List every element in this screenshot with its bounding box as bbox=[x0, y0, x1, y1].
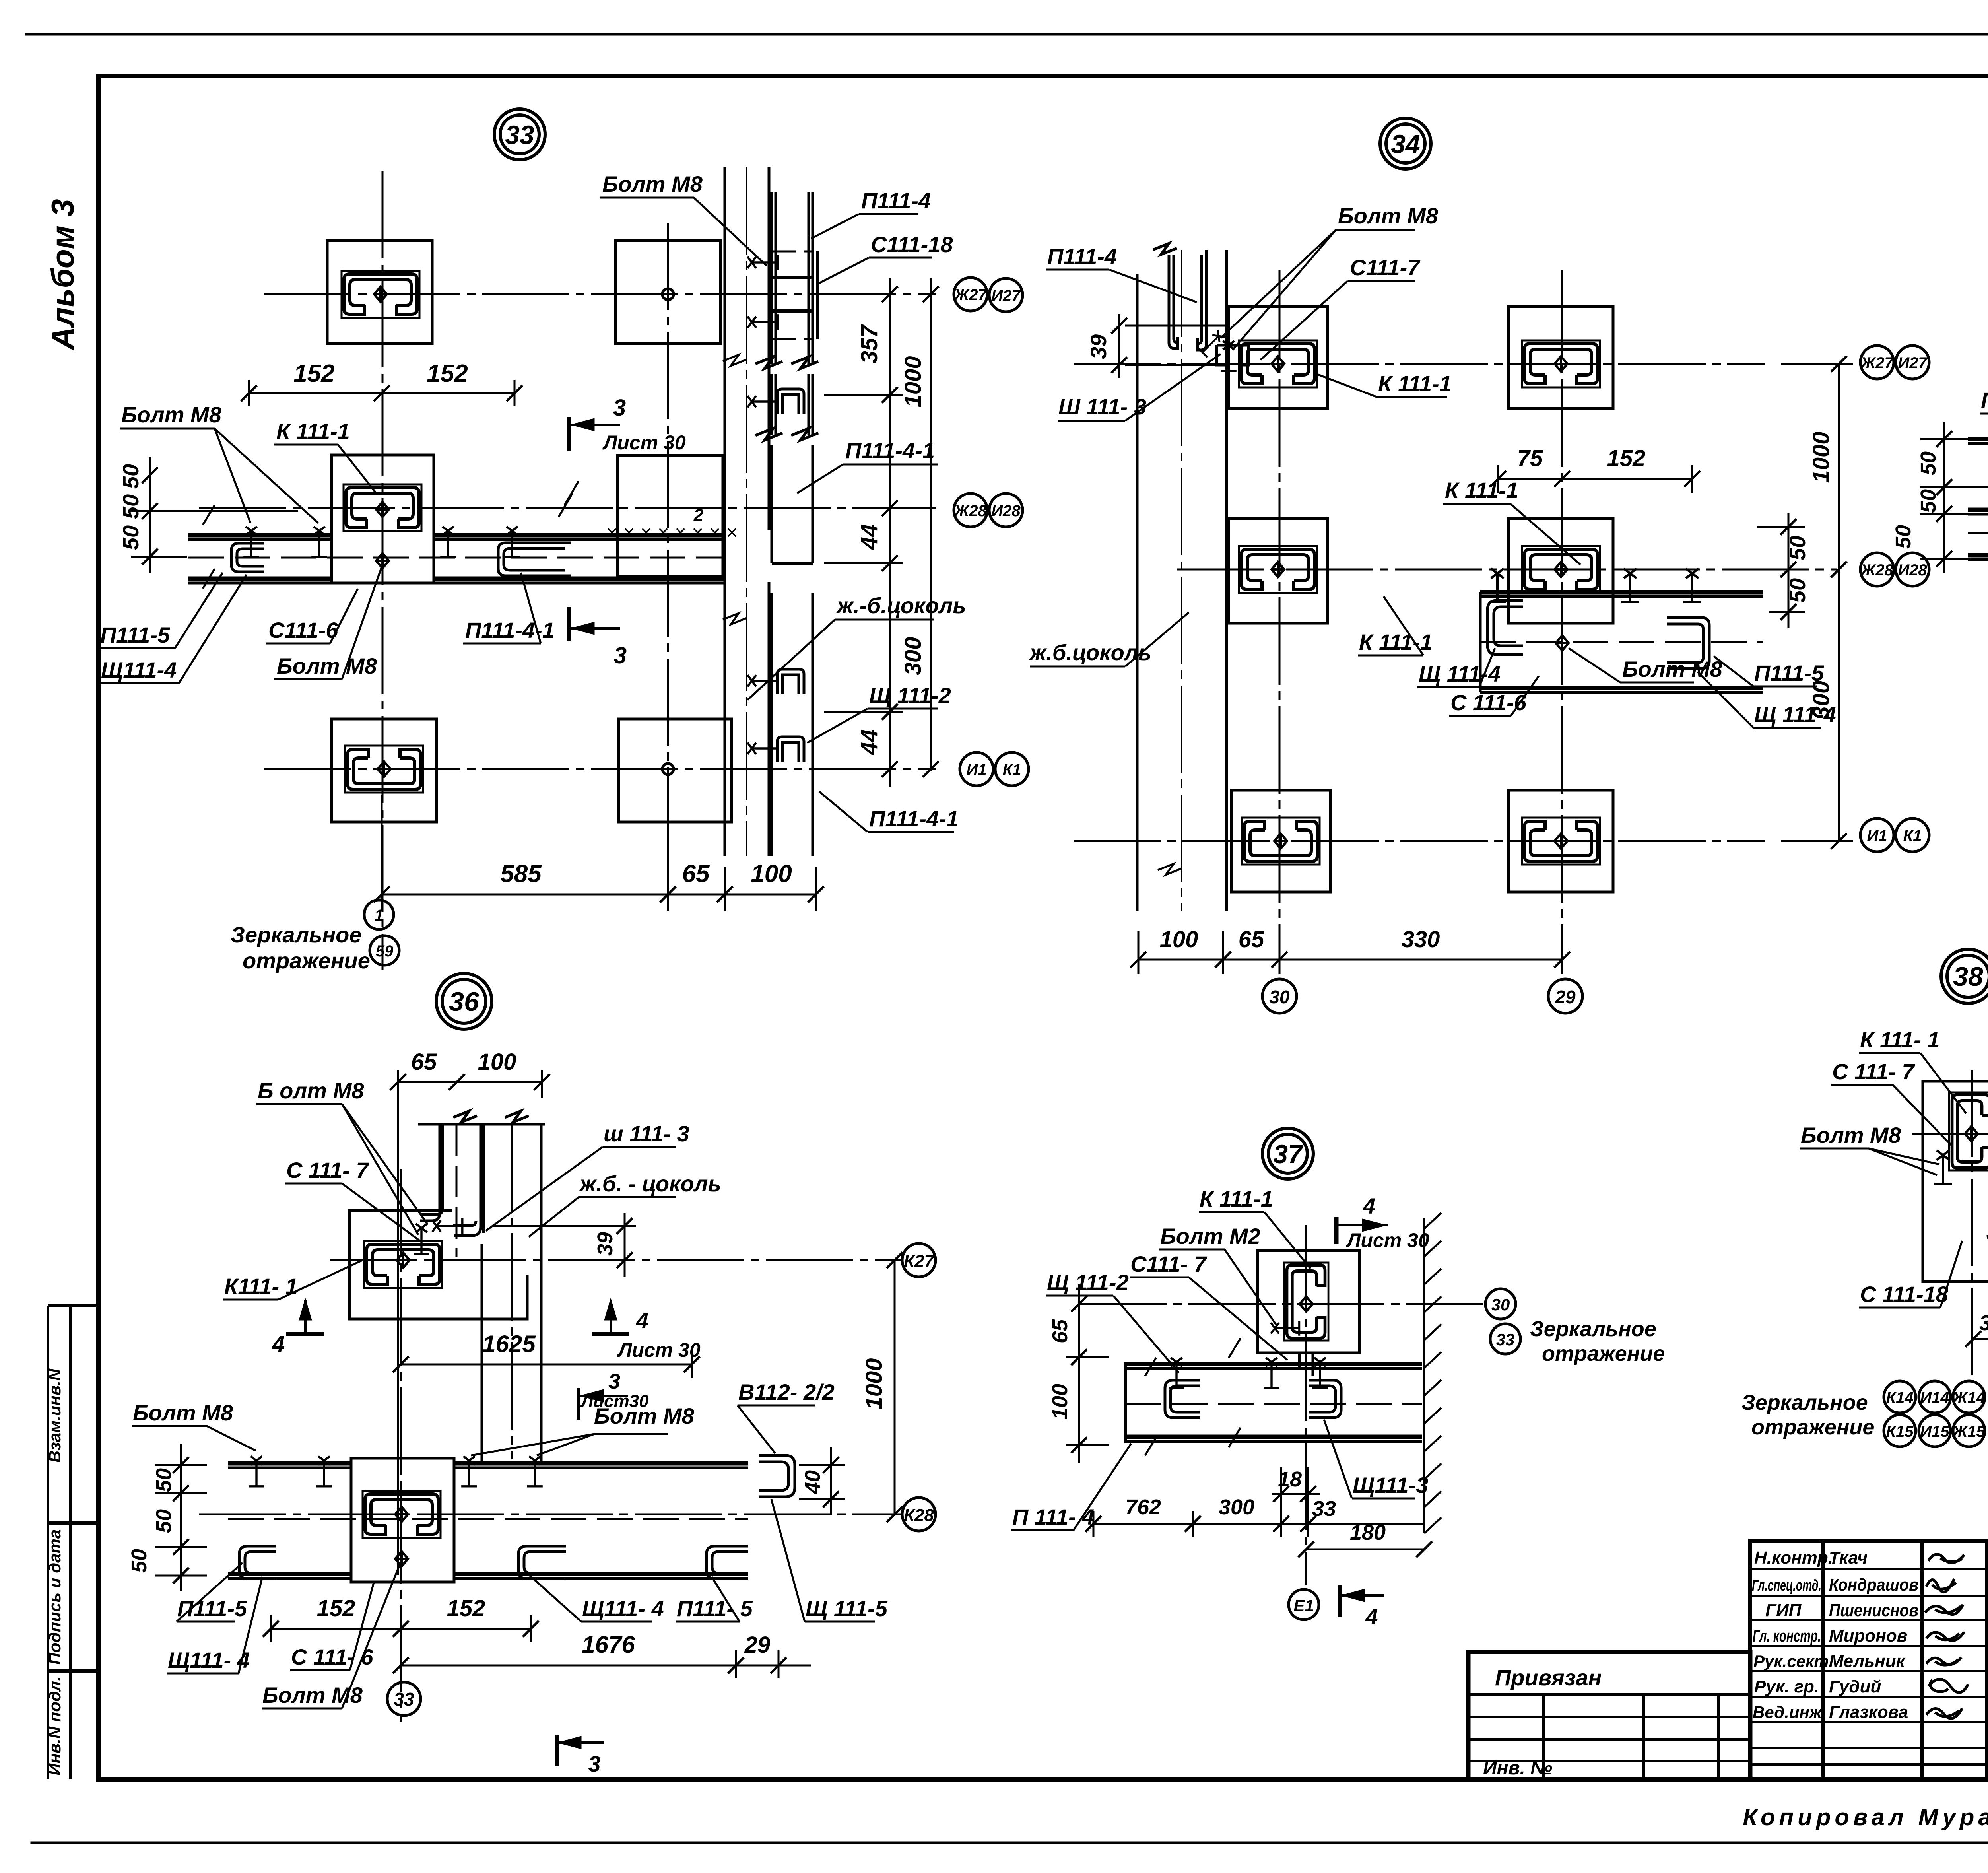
axis vertical col B bbox=[667, 223, 669, 911]
dim 1000 right bbox=[894, 1260, 896, 1514]
svg-text:П111- 5: П111- 5 bbox=[677, 1596, 753, 1621]
axis circles right of det34 bbox=[1860, 346, 1929, 852]
footing B3 bbox=[619, 719, 732, 822]
svg-text:37: 37 bbox=[1273, 1139, 1304, 1169]
svg-text:К 111-1: К 111-1 bbox=[1445, 478, 1518, 503]
svg-text:585: 585 bbox=[500, 860, 542, 888]
svg-text:Болт М8: Болт М8 bbox=[602, 171, 703, 196]
signatures squiggles bbox=[1925, 1554, 1968, 1719]
section 4 up bbox=[286, 1298, 324, 1334]
rail bbox=[228, 1463, 748, 1578]
svg-text:П111-4-1: П111-4-1 bbox=[869, 806, 959, 831]
svg-text:180: 180 bbox=[1350, 1521, 1386, 1545]
svg-text:3: 3 bbox=[614, 643, 627, 668]
dim 152 152 bbox=[249, 380, 514, 406]
section 3 Лист30 bbox=[579, 1388, 628, 1420]
svg-text:Ш 111- 3: Ш 111- 3 bbox=[1058, 394, 1146, 419]
svg-text:Копировал Муратова: Копировал Муратова bbox=[1743, 1804, 1988, 1830]
labels bbox=[1980, 146, 1988, 792]
privyazan box bbox=[1468, 1652, 1750, 1779]
sheet top trim line bbox=[26, 33, 1988, 36]
rail row2 bbox=[1480, 592, 1763, 692]
svg-text:50: 50 bbox=[1891, 525, 1915, 549]
svg-text:4: 4 bbox=[1365, 1604, 1378, 1629]
dim 65 100 top bbox=[398, 1070, 542, 1575]
svg-text:Болт М8: Болт М8 bbox=[262, 1683, 363, 1708]
svg-text:Зеркальное: Зеркальное bbox=[231, 922, 362, 947]
labels and leaders bbox=[1030, 230, 1821, 728]
svg-text:К 111- 1: К 111- 1 bbox=[1860, 1027, 1939, 1052]
dim 1625 bbox=[401, 1352, 692, 1378]
svg-text:33: 33 bbox=[1312, 1497, 1336, 1521]
svg-text:ж.б. - цоколь: ж.б. - цоколь bbox=[579, 1171, 721, 1196]
svg-text:3: 3 bbox=[588, 1751, 600, 1776]
svg-text:Пшениснов: Пшениснов bbox=[1829, 1601, 1918, 1620]
svg-text:1676: 1676 bbox=[582, 1631, 635, 1658]
svg-text:Рук.сект.: Рук.сект. bbox=[1753, 1652, 1833, 1671]
svg-text:Щ111- 4: Щ111- 4 bbox=[582, 1596, 664, 1621]
svg-text:4: 4 bbox=[272, 1331, 285, 1357]
svg-text:38: 38 bbox=[1953, 962, 1983, 992]
rail left end channel bbox=[231, 543, 264, 572]
svg-text:К 111-1: К 111-1 bbox=[1200, 1186, 1273, 1211]
svg-text:Рук. гр.: Рук. гр. bbox=[1754, 1677, 1819, 1696]
bolts bbox=[1169, 1358, 1184, 1388]
wall break marks bbox=[746, 167, 747, 856]
svg-text:330: 330 bbox=[1402, 927, 1440, 952]
channel in A1 bbox=[342, 271, 419, 318]
svg-text:отражение: отражение bbox=[243, 948, 370, 973]
svg-text:П111-5: П111-5 bbox=[1754, 661, 1824, 686]
dim 40 right bbox=[799, 1447, 845, 1515]
footing A2 bbox=[1229, 519, 1328, 623]
svg-text:Взам.инв.N: Взам.инв.N bbox=[45, 1368, 64, 1463]
svg-text:К 111-1: К 111-1 bbox=[276, 419, 350, 444]
svg-text:50: 50 bbox=[1785, 578, 1810, 603]
svg-text:К1: К1 bbox=[1903, 827, 1922, 845]
bolts on rail bbox=[243, 527, 259, 557]
svg-text:1000: 1000 bbox=[861, 1358, 887, 1409]
svg-text:100: 100 bbox=[1048, 1384, 1072, 1420]
svg-text:С111- 7: С111- 7 bbox=[1130, 1251, 1208, 1277]
section 4 bottom bbox=[1340, 1585, 1384, 1617]
dims left 65 100 bbox=[1066, 1284, 1109, 1463]
rail (horizontal member) bbox=[188, 535, 725, 583]
svg-text:300: 300 bbox=[900, 637, 926, 676]
detail bubble 37 bbox=[1262, 1128, 1313, 1179]
svg-text:50: 50 bbox=[1785, 536, 1810, 560]
svg-text:29: 29 bbox=[744, 1632, 771, 1658]
svg-text:Ж28: Ж28 bbox=[1860, 562, 1893, 579]
footing B2 bbox=[617, 455, 723, 576]
axis 30 bbox=[1079, 1225, 1483, 1585]
svg-text:4: 4 bbox=[1363, 1193, 1375, 1218]
svg-text:Ж27: Ж27 bbox=[953, 286, 987, 304]
rail right channel П111-4-1 bbox=[498, 543, 571, 576]
svg-text:Щ111-4: Щ111-4 bbox=[101, 657, 177, 682]
svg-text:отражение: отражение bbox=[1542, 1342, 1665, 1366]
svg-text:50: 50 bbox=[118, 525, 143, 550]
axis line И1 bbox=[264, 768, 936, 770]
svg-text:В112- 2/2: В112- 2/2 bbox=[738, 1379, 835, 1405]
svg-text:Вед.инж.: Вед.инж. bbox=[1753, 1703, 1826, 1721]
bolts at wall joint bbox=[1198, 328, 1226, 357]
right dim 1000 300 bbox=[1781, 364, 1853, 841]
svg-text:Щ 111-5: Щ 111-5 bbox=[806, 1596, 888, 1621]
svg-text:Болт М8: Болт М8 bbox=[1801, 1123, 1901, 1148]
svg-text:34: 34 bbox=[1391, 129, 1420, 159]
svg-text:762: 762 bbox=[1125, 1495, 1161, 1519]
footing B1 bbox=[1508, 307, 1613, 408]
svg-text:Болт М8: Болт М8 bbox=[1622, 657, 1723, 682]
svg-text:Ткач: Ткач bbox=[1829, 1548, 1868, 1568]
bolts on column bbox=[747, 255, 778, 270]
svg-text:П111-5: П111-5 bbox=[177, 1596, 247, 1621]
svg-text:Гудий: Гудий bbox=[1829, 1677, 1881, 1696]
rail middle bbox=[1968, 439, 1988, 560]
dim 39 bbox=[1973, 1316, 1988, 1352]
svg-text:Болт М8: Болт М8 bbox=[121, 402, 222, 427]
svg-text:44: 44 bbox=[856, 729, 882, 756]
svg-text:33: 33 bbox=[394, 1689, 414, 1710]
svg-text:Щ111- 4: Щ111- 4 bbox=[168, 1648, 250, 1673]
labels with leaders bbox=[99, 198, 954, 832]
footing A1 bbox=[1229, 307, 1328, 408]
dim 50 50 50 left bbox=[131, 457, 298, 573]
П111-4 channel hanging bbox=[1153, 243, 1206, 350]
svg-text:59: 59 bbox=[376, 942, 394, 960]
svg-text:И27: И27 bbox=[991, 287, 1021, 305]
К111-1 channel vertical bbox=[1949, 1092, 1988, 1170]
svg-text:50: 50 bbox=[118, 494, 143, 519]
wall strip bbox=[1137, 250, 1227, 911]
svg-text:К27: К27 bbox=[904, 1251, 935, 1271]
svg-text:1625: 1625 bbox=[482, 1331, 536, 1357]
svg-text:Ж14: Ж14 bbox=[1952, 1389, 1985, 1407]
detail bubble 33 bbox=[494, 109, 545, 160]
svg-text:152: 152 bbox=[1607, 445, 1646, 471]
dim 50 50 left bbox=[1920, 422, 1970, 573]
svg-text:Б олт М8: Б олт М8 bbox=[258, 1078, 364, 1103]
svg-text:Подпись и дата: Подпись и дата bbox=[45, 1529, 64, 1665]
svg-text:Болт М8: Болт М8 bbox=[133, 1400, 233, 1425]
svg-text:С 111- 6: С 111- 6 bbox=[291, 1644, 373, 1669]
svg-text:50: 50 bbox=[152, 1468, 176, 1492]
axis line Ж28 bbox=[199, 507, 936, 509]
dim 39 bbox=[1119, 314, 1227, 378]
svg-text:152: 152 bbox=[293, 360, 334, 387]
dim 75 152 bbox=[1498, 465, 1692, 493]
sheet bottom trim line bbox=[32, 1842, 1988, 1844]
svg-text:Щ111-3: Щ111-3 bbox=[1353, 1473, 1428, 1498]
svg-text:Гл. констр.: Гл. констр. bbox=[1753, 1626, 1821, 1645]
svg-text:2: 2 bbox=[693, 505, 704, 525]
axis line Ж27 bbox=[199, 171, 936, 970]
С111-7 small connector bbox=[1217, 345, 1248, 365]
svg-text:Гл.спец.отд.: Гл.спец.отд. bbox=[1752, 1577, 1821, 1594]
dim 1676 29 bbox=[401, 1650, 811, 1678]
svg-text:С111-7: С111-7 bbox=[1350, 255, 1421, 280]
svg-text:К15: К15 bbox=[1886, 1423, 1914, 1440]
labels bbox=[1011, 1212, 1415, 1530]
section 4 Лист30 bbox=[592, 1298, 629, 1334]
break marks on rail bbox=[1145, 1338, 1241, 1455]
svg-text:Е1: Е1 bbox=[1293, 1596, 1314, 1615]
svg-text:П111-4: П111-4 bbox=[1047, 244, 1117, 269]
svg-text:1000: 1000 bbox=[1808, 431, 1834, 483]
svg-text:357: 357 bbox=[856, 324, 882, 364]
break marks on rail bbox=[203, 481, 579, 589]
svg-text:40: 40 bbox=[801, 1470, 825, 1494]
svg-text:Лист 30: Лист 30 bbox=[1346, 1229, 1429, 1251]
footing A3 bbox=[1231, 790, 1330, 892]
svg-text:65: 65 bbox=[1239, 927, 1264, 952]
axis lines bbox=[1074, 270, 1837, 966]
svg-text:Зеркальное: Зеркальное bbox=[1530, 1317, 1656, 1341]
svg-text:отражение: отражение bbox=[1751, 1415, 1874, 1439]
svg-text:4: 4 bbox=[636, 1308, 648, 1333]
svg-text:Зеркальное: Зеркальное bbox=[1741, 1391, 1868, 1414]
svg-text:1: 1 bbox=[375, 907, 383, 924]
channel in A3 opening up bbox=[345, 746, 423, 793]
В112-2/2 channel bbox=[759, 1455, 795, 1497]
svg-text:П 111- 4: П 111- 4 bbox=[1012, 1504, 1094, 1529]
axis vertical col A bbox=[382, 171, 384, 970]
svg-text:100: 100 bbox=[751, 860, 792, 888]
bolts bbox=[1934, 1150, 1952, 1184]
svg-text:75: 75 bbox=[1517, 445, 1543, 471]
mirrored note bbox=[364, 900, 399, 965]
bottom dim 585 65 100 bbox=[382, 795, 816, 911]
svg-text:К 111-1: К 111-1 bbox=[1378, 371, 1452, 396]
svg-text:Лист 30: Лист 30 bbox=[617, 1339, 701, 1361]
svg-text:И15: И15 bbox=[1920, 1423, 1949, 1440]
footing bbox=[1923, 1081, 1988, 1282]
bolts on rail bbox=[1489, 569, 1506, 602]
rail central square bbox=[351, 1458, 454, 1582]
svg-text:С 111-18: С 111-18 bbox=[1860, 1282, 1949, 1307]
rail channels bbox=[1487, 600, 1709, 668]
dim 39 bbox=[493, 1213, 636, 1277]
bottom axis bubbles 30 29 bbox=[1262, 979, 1582, 1013]
svg-text:44: 44 bbox=[856, 524, 882, 550]
staff table bbox=[1750, 1541, 1988, 1779]
svg-text:152: 152 bbox=[447, 1595, 485, 1621]
svg-text:К111- 1: К111- 1 bbox=[224, 1274, 298, 1299]
svg-text:Ж15: Ж15 bbox=[1952, 1423, 1985, 1440]
svg-text:ш 111- 3: ш 111- 3 bbox=[604, 1121, 689, 1146]
svg-text:30: 30 bbox=[1491, 1295, 1510, 1314]
footing A3 bbox=[332, 719, 437, 822]
svg-text:65: 65 bbox=[411, 1049, 437, 1075]
svg-text:Глазкова: Глазкова bbox=[1829, 1702, 1908, 1722]
dim 50 50 right bbox=[1757, 513, 1805, 628]
footing B1 bbox=[615, 241, 720, 344]
rail channels bbox=[239, 1546, 748, 1579]
svg-text:29: 29 bbox=[1555, 987, 1576, 1007]
svg-text:Щ 111-2: Щ 111-2 bbox=[869, 683, 951, 708]
svg-text:39: 39 bbox=[593, 1232, 617, 1256]
axis К28 bbox=[199, 1514, 903, 1515]
svg-text:П111-4-1: П111-4-1 bbox=[465, 618, 555, 643]
svg-text:Мельник: Мельник bbox=[1829, 1652, 1906, 1671]
channel in A2 bbox=[344, 484, 421, 531]
bubble 33 bottom bbox=[387, 1682, 421, 1716]
svg-text:П111-5: П111-5 bbox=[1981, 388, 1988, 413]
svg-text:Щ 111-2: Щ 111-2 bbox=[1047, 1270, 1129, 1295]
svg-text:ГИП: ГИП bbox=[1765, 1601, 1802, 1620]
svg-text:Альбом 3: Альбом 3 bbox=[45, 199, 80, 350]
svg-text:Лист 30: Лист 30 bbox=[602, 431, 686, 454]
svg-text:Щ 111-4: Щ 111-4 bbox=[1754, 702, 1836, 727]
axis bubbles grid bbox=[1884, 1381, 1985, 1447]
left margin strip bbox=[48, 1306, 99, 1779]
labels bbox=[1800, 1053, 1988, 1375]
svg-text:ж.-б.цоколь: ж.-б.цоколь bbox=[836, 593, 966, 618]
svg-text:100: 100 bbox=[478, 1049, 516, 1075]
svg-text:33: 33 bbox=[505, 120, 534, 150]
svg-text:ж.б.цоколь: ж.б.цоколь bbox=[1029, 640, 1151, 665]
svg-text:И14: И14 bbox=[1920, 1389, 1949, 1407]
rail bbox=[1126, 1362, 1422, 1443]
svg-text:50: 50 bbox=[1916, 451, 1940, 475]
К111-1 channel vertical bbox=[1284, 1263, 1328, 1341]
wall and П111-4 channel bbox=[418, 1111, 545, 1461]
bolts on rail bbox=[248, 1456, 264, 1486]
detail bubble 38 bbox=[1941, 949, 1988, 1003]
wall strip ж.-б.цоколь bbox=[725, 167, 769, 856]
svg-text:И1: И1 bbox=[1867, 827, 1887, 845]
axis 33 bbox=[1912, 1070, 1988, 1380]
footing A1 bbox=[327, 241, 432, 344]
svg-text:И28: И28 bbox=[991, 502, 1021, 520]
dim 50 50 50 left bbox=[155, 1444, 207, 1591]
svg-text:П111-4: П111-4 bbox=[861, 188, 931, 213]
bottom dim 100 65 330 bbox=[1138, 931, 1562, 974]
svg-text:Н.контр.: Н.контр. bbox=[1754, 1548, 1833, 1568]
svg-text:Болт М8: Болт М8 bbox=[594, 1403, 695, 1428]
svg-text:Ж28: Ж28 bbox=[953, 502, 987, 520]
svg-text:Кондрашов: Кондрашов bbox=[1829, 1575, 1918, 1595]
svg-text:Привязан: Привязан bbox=[1495, 1665, 1602, 1690]
svg-text:Болт М8: Болт М8 bbox=[277, 653, 377, 678]
svg-text:К1: К1 bbox=[1003, 761, 1021, 779]
svg-text:Инв.N подл.: Инв.N подл. bbox=[45, 1676, 64, 1776]
svg-text:Ж27: Ж27 bbox=[1860, 354, 1894, 372]
footing B3 bbox=[1508, 790, 1613, 892]
title block texts bbox=[1483, 1548, 1988, 1780]
svg-text:50: 50 bbox=[127, 1549, 151, 1573]
svg-text:К14: К14 bbox=[1886, 1389, 1913, 1407]
svg-text:И27: И27 bbox=[1898, 354, 1928, 372]
svg-text:50: 50 bbox=[152, 1509, 176, 1533]
footing square bbox=[1258, 1251, 1359, 1353]
svg-text:33: 33 bbox=[1496, 1330, 1515, 1349]
detail bubble 34 bbox=[1380, 118, 1431, 169]
right vertical dims bbox=[824, 278, 931, 787]
К111-1 footing bbox=[349, 1210, 527, 1319]
footing A2 (column with rail) bbox=[332, 455, 434, 583]
svg-text:30: 30 bbox=[1269, 987, 1290, 1007]
axis lines bbox=[1944, 199, 1988, 871]
svg-text:Болт М2: Болт М2 bbox=[1160, 1224, 1260, 1249]
svg-text:Миронов: Миронов bbox=[1829, 1626, 1907, 1646]
footing B2 bbox=[1508, 519, 1613, 623]
svg-text:П111-4-1: П111-4-1 bbox=[845, 438, 935, 463]
section 4 Лист30 bbox=[1336, 1217, 1388, 1244]
svg-text:С 111- 7: С 111- 7 bbox=[1832, 1059, 1915, 1084]
svg-text:Инв. №: Инв. № bbox=[1483, 1758, 1552, 1779]
svg-text:300: 300 bbox=[1219, 1495, 1254, 1519]
bolts bbox=[414, 1224, 429, 1254]
svg-text:50: 50 bbox=[118, 464, 143, 489]
svg-text:С111-18: С111-18 bbox=[871, 232, 953, 257]
svg-text:3: 3 bbox=[613, 395, 626, 421]
x-marks row on B2 bbox=[606, 505, 738, 544]
axis К27 bbox=[330, 1169, 903, 1722]
svg-text:И28: И28 bbox=[1898, 562, 1927, 579]
svg-text:39: 39 bbox=[1979, 1311, 1988, 1335]
svg-text:Болт М8: Болт М8 bbox=[1338, 203, 1439, 228]
svg-text:36: 36 bbox=[449, 987, 480, 1017]
section 3 bottom bbox=[557, 1735, 604, 1766]
svg-text:П111-5: П111-5 bbox=[100, 622, 170, 647]
svg-text:50: 50 bbox=[1916, 489, 1940, 513]
svg-text:65: 65 bbox=[1048, 1319, 1072, 1343]
rail channels bbox=[1165, 1380, 1341, 1418]
axis circles left bbox=[954, 278, 1029, 786]
svg-text:Щ 111-4: Щ 111-4 bbox=[1419, 661, 1501, 686]
svg-text:С111-6: С111-6 bbox=[268, 618, 338, 643]
channel tail to rail bbox=[1299, 1353, 1313, 1376]
section mark 3 upper bbox=[569, 417, 620, 451]
Е1 bubble bbox=[1289, 1589, 1319, 1620]
svg-text:1000: 1000 bbox=[900, 356, 926, 407]
labels bbox=[132, 1104, 875, 1708]
dims 152 152 bottom bbox=[271, 1615, 531, 1642]
П111-4 channel column bbox=[755, 192, 818, 856]
svg-text:65: 65 bbox=[682, 860, 710, 888]
bottom dims bbox=[1093, 1467, 1424, 1549]
svg-text:К28: К28 bbox=[904, 1506, 934, 1525]
svg-text:39: 39 bbox=[1086, 334, 1111, 359]
section mark 3 lower bbox=[569, 607, 620, 641]
svg-text:100: 100 bbox=[1160, 927, 1198, 952]
svg-text:С 111- 7: С 111- 7 bbox=[286, 1158, 369, 1183]
svg-text:К 111-1: К 111-1 bbox=[1359, 630, 1433, 655]
svg-text:152: 152 bbox=[427, 360, 468, 387]
svg-text:3: 3 bbox=[608, 1370, 620, 1393]
svg-text:18: 18 bbox=[1278, 1467, 1302, 1491]
wall hatched bbox=[1424, 1213, 1441, 1533]
svg-text:152: 152 bbox=[317, 1595, 355, 1621]
detail bubble 36 bbox=[436, 973, 492, 1029]
svg-text:С 111-6: С 111-6 bbox=[1450, 690, 1527, 715]
svg-text:И1: И1 bbox=[966, 761, 986, 779]
